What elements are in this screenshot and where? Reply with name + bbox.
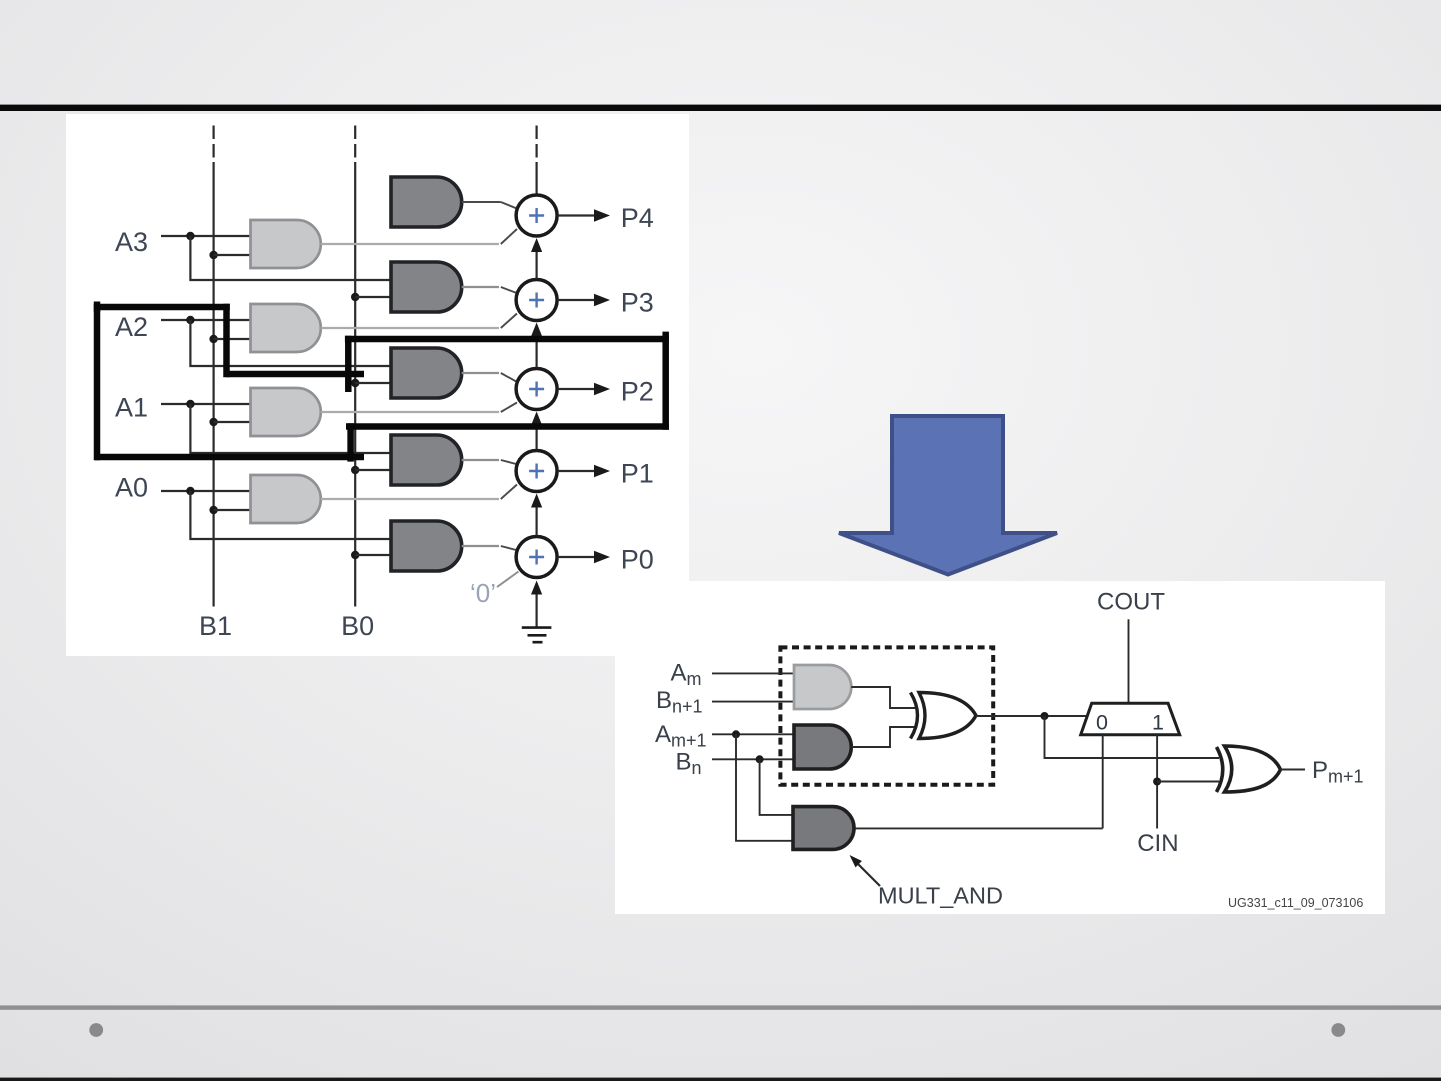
svg-text:P1: P1 [621,459,654,489]
node A0 junction [186,487,194,495]
node B0 row P2 junction [351,379,359,387]
svg-text:COUT: COUT [1097,589,1165,616]
wire ground to S0 [535,593,537,627]
svg-text:CIN: CIN [1137,830,1178,857]
wire carry S2 to S3 [535,336,537,368]
figure 1 panel [66,114,689,656]
net B1 vertical [213,162,215,607]
footer rule [0,1005,1441,1009]
adder S2 [516,369,557,410]
highlight box B top edge [345,336,669,343]
svg-text:B1: B1 [199,611,232,641]
and-gate top dark [391,177,462,227]
plus sign S2 [529,382,544,397]
wire carry S3 to S4 [535,251,537,279]
wire Pm+1 output [1281,769,1306,771]
wire Am+1 [712,733,794,735]
svg-text:A1: A1 [115,393,148,423]
wire into adder S3 lower [501,314,517,329]
wire Bn+1 [712,701,794,703]
and-gate A0B1 [251,475,321,523]
svg-text:1: 1 [1152,711,1164,735]
node A3-B1 junction [209,251,217,259]
ground [522,628,552,643]
wire Am+1 branch to MULT_AND [736,734,793,841]
wire Am [712,672,794,674]
wire mux 0 select down [1102,735,1104,829]
highlight box B left upper vertical [345,336,352,392]
dashed LUT box [780,647,993,784]
wire into adder S1 upper [501,460,518,465]
node A1-B1 junction [209,418,217,426]
wire gate A2B1 output [321,327,499,329]
node A2-B1 junction [209,335,217,343]
wire light gate to xor1 [851,687,915,708]
highlight box A bottom edge [95,454,364,461]
wire P3 output [558,299,596,301]
footer dot left [89,1023,103,1037]
wire xor1 branch to xor2 [1045,716,1220,758]
adder S4 [516,195,557,236]
wire A2 input [161,319,251,321]
adder S3 [516,280,557,321]
wire carry into adder S4 [535,162,537,194]
top rule [0,105,1441,111]
wire dark gate to xor1 [851,727,915,747]
wire into adder S4 lower [501,229,517,244]
and-gate A2B1 [251,304,321,352]
node B0 row P0 junction [351,551,359,559]
wire CIN vertical [1156,735,1158,829]
carry chain dashed top [535,126,537,164]
node A2 junction [186,316,194,324]
wire carry S0 to S1 [535,506,537,536]
bottom strip [0,1078,1441,1081]
xor-gate output XOR input arc [1217,747,1223,792]
footer dot right [1331,1023,1345,1037]
wire A0 branch to gate A0B0 [190,491,391,539]
wire B1 to gate A0B1 [214,509,251,511]
wire gate A1B1 output [321,411,499,413]
plus sign S3 [529,293,544,308]
and-gate A1B0 [391,435,462,485]
node A0-B1 junction [209,506,217,514]
wire P4 output [558,214,596,216]
arrowhead P3 [594,294,610,307]
svg-text:P2: P2 [621,377,654,407]
wire gate A0B0 output [462,545,499,547]
node B0 row P3 junction [351,293,359,301]
arrowhead P4 [594,209,610,222]
net B1 dashed top [213,126,215,164]
wire '0' into adder S0 [497,572,519,588]
adder S0 [516,537,557,578]
svg-text:B0: B0 [341,611,374,641]
node Bn junction [756,755,764,763]
wire into adder S3 upper [501,287,518,294]
wire xor1 output [976,715,1088,717]
wire COUT [1128,619,1130,703]
xor-gate XORCY body [919,693,976,739]
net B0 dashed top [354,126,356,164]
wire B1 to gate A3B1 [214,254,251,256]
highlight box B right edge [662,332,669,430]
wire B1 to gate A2B1 [214,338,251,340]
arrowhead P0 [594,551,610,564]
wire CIN to xor2 [1157,781,1219,783]
svg-text:MULT_AND: MULT_AND [878,883,1003,909]
wire into adder S4 upper [501,202,518,209]
node xor1 output junction [1041,712,1049,720]
node B0 row P1 junction [351,466,359,474]
wire A0 input [161,490,251,492]
svg-text:UG331_c11_09_073106: UG331_c11_09_073106 [1228,896,1363,910]
xor-gate XORCY input arc [911,693,918,739]
arrowhead carry into S1 [531,494,542,508]
net B0 vertical [354,162,356,607]
big blue arrow [839,416,1057,575]
plus sign S0 [529,550,544,565]
highlight box A right jog vertical [223,304,230,377]
plus sign S1 [529,464,544,479]
wire P1 output [558,470,596,472]
highlight box A jog horizontal [227,371,365,378]
node CIN junction [1153,778,1161,786]
and-gate dark Am+1Bn [794,725,851,769]
mux CYMUX [1081,703,1180,735]
svg-text:A3: A3 [115,227,148,257]
wire gate A1B0 output [462,459,499,461]
wire gate A0B1 output [321,498,499,500]
wire B0 to gate A0B0 [355,554,391,556]
wire gate A3B1 output [321,243,499,245]
wire B0 to gate A1B0 [355,469,391,471]
svg-text:P3: P3 [621,288,654,318]
arrowhead carry into S4 [531,238,542,252]
wire A2 branch to gate A2B0 [190,320,391,366]
wire top dark gate output [462,201,501,203]
arrowhead P2 [594,383,610,396]
wire B0 to gate A2B0 [355,382,391,384]
wire carry S1 to S2 [535,424,537,450]
wire A3 branch to gate A3B0 [190,236,391,280]
wire into adder S2 lower [501,403,517,413]
annotation arrow MULT_AND [857,863,880,886]
wire B1 to gate A1B1 [214,421,251,423]
svg-text:0: 0 [1096,711,1108,735]
node A3 junction [186,232,194,240]
figure 2 panel [615,581,1385,914]
and-gate A3B0 [391,262,462,312]
wire P2 output [558,388,596,390]
and-gate light AmBn+1 [794,665,851,709]
wire into adder S1 lower [501,485,517,500]
svg-text:A2: A2 [115,312,148,342]
node A1 junction [186,400,194,408]
wire Bn [712,758,794,760]
and-gate MULT_AND [793,807,854,850]
arrowhead MULT_AND annotation [850,855,862,867]
wire into adder S2 upper [501,373,518,383]
arrowhead carry into S3 [531,323,542,337]
and-gate A1B1 [251,388,321,436]
node Am+1 junction [732,730,740,738]
wire gate A2B0 output [462,372,499,374]
plus sign S4 [529,208,544,223]
and-gate A2B0 [391,348,462,398]
arrowhead carry into S2 [531,412,542,426]
wire into adder S0 upper [501,546,518,551]
wire gate A3B0 output [462,286,499,288]
highlight box A top-left cap [94,302,101,313]
svg-text:P0: P0 [621,545,654,575]
highlight box B left lower vertical [347,423,354,461]
svg-text:A0: A0 [115,473,148,503]
wire P0 output [558,556,596,558]
arrowhead P1 [594,465,610,478]
adder S1 [516,451,557,492]
wire MULT_AND output [855,827,1103,829]
highlight box A top edge [95,304,230,311]
highlight box B bottom edge [346,423,669,430]
highlight box A left edge [94,304,101,461]
wire A1 input [161,403,251,405]
arrowhead carry into S0 [531,581,542,595]
and-gate A0B0 [391,521,462,571]
svg-text:‘0’: ‘0’ [470,578,496,608]
wire A3 input [161,235,251,237]
wire A1 branch to gate A1B0 [190,404,391,453]
and-gate A3B1 [251,220,321,268]
wire Bn branch to MULT_AND [760,759,793,815]
xor-gate output XOR body [1225,746,1281,792]
svg-text:P4: P4 [621,203,654,233]
wire B0 to gate A3B0 [355,296,391,298]
